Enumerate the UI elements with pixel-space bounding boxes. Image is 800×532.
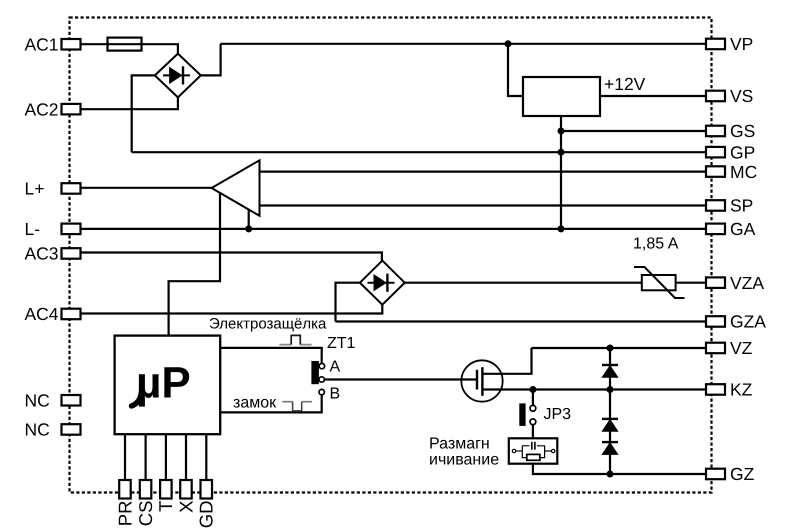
wire VS line (600, 95, 706, 97)
svg-text:ZT1: ZT1 (327, 335, 356, 352)
wire switch common to transistor gate (324, 378, 477, 380)
diode D2 (602, 419, 618, 431)
pin T (160, 480, 172, 499)
svg-text:ичивание: ичивание (429, 452, 499, 469)
node junction on VP line (505, 40, 512, 47)
pin VZA (706, 277, 725, 288)
wire transistor drain to VZ line (482, 348, 531, 374)
wire VZA line (405, 282, 706, 284)
svg-text:CS: CS (135, 501, 156, 527)
pulse symbol negative (lock) (282, 402, 312, 411)
wire AC4 to bridge B2 bottom (81, 305, 382, 314)
transistor Q1 (461, 360, 502, 401)
switch ZT1 armature bar (311, 361, 319, 384)
node junction GP (558, 149, 565, 156)
varistor RU1 (634, 267, 685, 298)
svg-text:B: B (330, 386, 341, 403)
pin NC lower (62, 424, 81, 435)
wire MC line to amplifier input (260, 171, 707, 173)
pin AC1 (62, 39, 81, 50)
pin GD (201, 480, 213, 499)
wire transistor source / KZ line (482, 388, 706, 390)
svg-text:GZA: GZA (730, 312, 766, 332)
wire demagnetization to GZ line (533, 464, 706, 474)
wire uP bottom pin GD (205, 434, 207, 480)
diode D3 (602, 442, 618, 454)
wire GZA line (336, 320, 707, 322)
pin PR (119, 480, 131, 499)
svg-text:NC: NC (25, 391, 50, 411)
contact common circle (319, 377, 324, 382)
node junction VZ diode (607, 345, 614, 352)
node junction KZ diode (607, 386, 614, 393)
wire diode chain KZ-GZ (609, 390, 611, 475)
svg-text:AC4: AC4 (25, 304, 59, 324)
svg-text:L-: L- (25, 219, 41, 239)
svg-text:GA: GA (730, 219, 756, 239)
board boundary dashed border (70, 18, 712, 493)
wire uP to lock contact B (220, 395, 322, 413)
wire JP3 to demagnetization unit (532, 425, 534, 439)
wire uP bottom pin X (185, 434, 187, 480)
wire AC1 to fuse to bridge B1 top (81, 44, 178, 53)
wire B1 left vertex to GP net vertical (132, 75, 155, 152)
svg-text:GZ: GZ (730, 464, 755, 484)
svg-text:GS: GS (730, 121, 755, 141)
svg-text:L+: L+ (25, 179, 45, 199)
wire VP line (221, 43, 706, 45)
label uP mu curved tail (132, 392, 142, 407)
svg-text:+12V: +12V (604, 74, 646, 94)
demagnetization posistor unit (509, 438, 558, 463)
wire GS line (561, 130, 706, 132)
svg-text:GD: GD (196, 501, 217, 529)
svg-text:A: A (330, 359, 341, 376)
pin CS (140, 480, 152, 499)
pin VZ (706, 343, 725, 354)
svg-text:MC: MC (730, 162, 757, 182)
wire uP to latch contact A (220, 348, 322, 363)
wire AC3 to bridge B2 top (81, 253, 382, 261)
pin GA (706, 224, 725, 235)
wire B2 left vertex to GZA (336, 283, 360, 322)
svg-text:PR: PR (114, 501, 135, 527)
svg-text:VS: VS (730, 86, 753, 106)
wire SP line to amplifier input (260, 204, 707, 206)
bridge rectifier B2 (360, 261, 405, 305)
pin L- (62, 224, 81, 235)
svg-text:T: T (155, 501, 176, 512)
pin GS (706, 126, 725, 137)
svg-text:AC1: AC1 (25, 35, 59, 55)
svg-text:VZA: VZA (730, 273, 764, 293)
bridge rectifier B1 (155, 54, 201, 98)
pin VP (706, 39, 725, 50)
svg-text:µP: µP (136, 359, 191, 408)
pin MC (706, 166, 725, 177)
op-amp U1 amplifier triangle (212, 160, 260, 216)
wire L- / GA line (81, 228, 706, 230)
pin AC3 (62, 248, 81, 259)
pulse symbol positive (latch) (279, 335, 311, 344)
svg-text:KZ: KZ (730, 380, 753, 400)
jumper JP3 bar (519, 403, 525, 426)
pin X (180, 480, 192, 499)
wire diode D1 vertical VZ-KZ (609, 348, 611, 390)
wire uP bottom pin PR (124, 434, 126, 480)
svg-text:JP3: JP3 (544, 406, 572, 423)
svg-text:Электрозащёлка: Электрозащёлка (209, 315, 327, 332)
pin GP (706, 147, 725, 158)
pin NC upper (62, 395, 81, 406)
svg-text:VZ: VZ (730, 338, 753, 358)
microprocessor U2 uP box (115, 336, 221, 435)
svg-text:1,85 A: 1,85 A (633, 236, 679, 253)
wire uP bottom pin CS (145, 434, 147, 480)
pin AC4 (62, 309, 81, 320)
pin GZ (706, 469, 725, 480)
contact B circle (319, 389, 324, 394)
voltage regulator +12V box (523, 77, 600, 116)
node junction amp to L- (245, 225, 252, 232)
svg-text:GP: GP (730, 142, 755, 162)
wire VP drop to +12V regulator (508, 44, 523, 96)
svg-text:AC3: AC3 (25, 244, 59, 264)
node junction GA (558, 225, 565, 232)
node junction GS (558, 128, 565, 135)
svg-text:VP: VP (730, 34, 753, 54)
pin VS (706, 91, 725, 102)
wire KZ to jumper JP3 (532, 390, 534, 406)
node junction KZ jumper (529, 386, 536, 393)
svg-text:Размагн: Размагн (429, 436, 490, 453)
wire uP bottom pin T (165, 434, 167, 480)
svg-text:AC2: AC2 (25, 99, 59, 119)
diode D1 (602, 365, 618, 377)
svg-text:замок: замок (233, 395, 277, 412)
pin GZA (706, 316, 725, 327)
contact A circle (319, 363, 324, 368)
pin AC2 (62, 104, 81, 115)
pin L+ (62, 183, 81, 194)
pin SP (706, 200, 725, 211)
wire amplifier control to uP top (169, 193, 220, 336)
svg-text:X: X (175, 501, 196, 513)
wire L+ line to amplifier output (81, 187, 212, 189)
wire GP line (132, 151, 706, 153)
jumper JP3 bottom contact (530, 419, 536, 425)
wire amplifier bottom stub to L- (248, 210, 250, 229)
svg-text:NC: NC (25, 420, 50, 440)
wire B1 right vertex up to VP line (201, 44, 221, 76)
wire AC2 to B1 bottom vertex (81, 97, 178, 109)
wire VZ line (532, 347, 707, 349)
node junction GZ diode (607, 471, 614, 478)
fuse F1 (108, 38, 142, 51)
pin KZ (706, 384, 725, 395)
jumper JP3 top contact (530, 405, 536, 411)
svg-text:SP: SP (730, 196, 753, 216)
wire regulator ground vertical to GA line (560, 116, 562, 229)
